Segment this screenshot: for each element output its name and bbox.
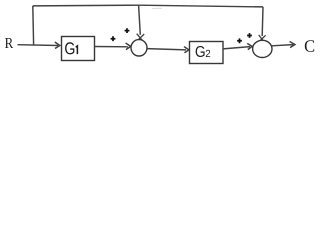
plus sign (feedforward input of S2) xyxy=(247,33,252,38)
arrowhead into G1 xyxy=(55,42,60,49)
plus sign (G2 path input of S2) xyxy=(237,38,242,43)
wire drop into summing junction S1 xyxy=(139,5,141,34)
wire (faint scan smudge on top line) xyxy=(152,7,162,9)
wire G2 to S2 xyxy=(223,47,250,49)
arrowhead into S2 left xyxy=(247,43,252,49)
label G2 xyxy=(196,46,205,57)
block G2 xyxy=(190,42,224,64)
plus sign (feedforward input of S1) xyxy=(125,28,130,33)
label G1 xyxy=(65,42,74,54)
summing junction S2 xyxy=(253,40,272,57)
wire S2 to output C xyxy=(272,45,293,46)
block G1 xyxy=(62,37,95,61)
plus sign (G1 path input of S1) xyxy=(111,36,116,41)
wire G1 to S1 xyxy=(95,46,129,48)
node C label xyxy=(305,40,314,52)
wire feedforward top line xyxy=(33,5,263,7)
node branch junction xyxy=(32,6,35,45)
arrowhead into S1 top xyxy=(137,34,145,40)
summing junction S1 xyxy=(131,40,147,56)
arrowhead at output xyxy=(290,42,295,48)
arrowhead into G2 xyxy=(184,47,189,53)
wire drop into summing junction S2 xyxy=(261,7,264,36)
node R label xyxy=(5,38,13,48)
arrowhead into S1 left xyxy=(126,43,131,50)
wire R to G1 xyxy=(18,44,59,47)
arrowhead into S2 top xyxy=(259,35,266,41)
wire S1 to G2 xyxy=(147,49,186,50)
